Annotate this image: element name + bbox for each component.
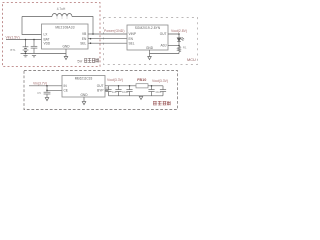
node: CE tap bbox=[46, 90, 48, 92]
svg-text:ME6211C33: ME6211C33 bbox=[75, 77, 93, 81]
ground rail box1 bbox=[21, 53, 67, 55]
junction dots bbox=[25, 33, 180, 91]
chip U1 labels bbox=[44, 25, 87, 48]
chip U2 labels bbox=[129, 26, 167, 50]
svg-text:GND: GND bbox=[146, 46, 154, 50]
module box: 5V boost power module (dashed) bbox=[3, 3, 101, 67]
svg-text:Vin(3.7V): Vin(3.7V) bbox=[33, 81, 47, 85]
svg-text:Vout(3.3V): Vout(3.3V) bbox=[107, 78, 123, 82]
capacitor C1 bbox=[33, 40, 35, 47]
svg-text:10uF: 10uF bbox=[155, 90, 162, 94]
svg-text:VB: VB bbox=[82, 32, 86, 36]
module box: MCU power box (dashed) bbox=[104, 18, 198, 65]
node: C9 rail bbox=[151, 85, 153, 87]
wire: inductor feed top-left bbox=[22, 16, 52, 18]
wire: left vertical to LX pin bbox=[22, 17, 42, 35]
inductor joint specks bbox=[57, 17, 68, 20]
capacitor C8 bbox=[129, 86, 131, 90]
svg-text:GND: GND bbox=[80, 93, 88, 97]
svg-text:BT1: BT1 bbox=[10, 48, 16, 52]
node: C1 tap bbox=[33, 39, 35, 41]
capacitor C5 bbox=[46, 90, 48, 92]
svg-text:VINP: VINP bbox=[129, 32, 136, 36]
svg-text:ADJ: ADJ bbox=[160, 44, 166, 48]
wire: Vin input to BAT pin bbox=[6, 39, 42, 41]
wire: U2 OUT to LED bbox=[168, 34, 179, 38]
svg-text:5V: 5V bbox=[77, 58, 82, 63]
wire: CE tie bbox=[47, 86, 62, 91]
node: EN wire dot bbox=[90, 38, 92, 40]
svg-text:SEL: SEL bbox=[80, 41, 86, 45]
svg-text:CE: CE bbox=[64, 88, 68, 92]
U3 BYP stub bbox=[105, 90, 109, 92]
node: SW/out junction bbox=[92, 33, 94, 35]
capacitor C10 bbox=[162, 86, 164, 90]
resistor R1 bbox=[177, 46, 180, 54]
wire: inductor to SW drop bbox=[72, 17, 93, 35]
svg-text:R1: R1 bbox=[183, 46, 187, 50]
node: C8 rail bbox=[129, 85, 131, 87]
svg-text:1uF: 1uF bbox=[112, 90, 117, 94]
svg-text:SEL: SEL bbox=[129, 41, 135, 45]
ground rail box3 bbox=[109, 95, 164, 97]
svg-text:BYP: BYP bbox=[97, 88, 103, 92]
ground bars under battery bbox=[23, 54, 27, 56]
wire: U1 VB to U2 VINP bbox=[88, 33, 127, 35]
svg-text:C5: C5 bbox=[37, 91, 41, 95]
ferrite bead FB1 bbox=[136, 84, 148, 88]
svg-text:OUT: OUT bbox=[97, 84, 104, 88]
battery BT1 bbox=[25, 40, 27, 47]
node: LED top bbox=[178, 33, 180, 35]
svg-text:OUT: OUT bbox=[160, 32, 167, 36]
svg-text:GND: GND bbox=[62, 45, 70, 49]
U2 GND pin and ground arrow bbox=[149, 50, 151, 57]
U3 GND pin and ground arrow bbox=[83, 97, 85, 102]
capacitor C7 bbox=[118, 86, 120, 90]
chip U3 labels bbox=[64, 77, 104, 98]
capacitor C6 bbox=[108, 86, 110, 90]
node: Vin3.7 tap bbox=[46, 85, 48, 87]
wire: U1 EN to U2 EN bbox=[88, 38, 127, 40]
svg-text:4.7uH: 4.7uH bbox=[57, 7, 66, 11]
ground bars under C1 bbox=[32, 54, 36, 56]
node: battery rail bbox=[25, 53, 27, 55]
svg-text:C6: C6 bbox=[105, 86, 109, 90]
svg-text:Vout(3.3V): Vout(3.3V) bbox=[152, 79, 168, 83]
chip U1 body bbox=[42, 24, 89, 49]
node: C7 rail bbox=[118, 85, 120, 87]
svg-text:VDD: VDD bbox=[44, 41, 51, 45]
svg-text:EN: EN bbox=[129, 37, 134, 41]
wire: Vin 3.7V input bbox=[29, 85, 62, 87]
module box: regulator module (dashed) bbox=[24, 71, 178, 110]
U1 GND pin and ground arrow bbox=[65, 49, 67, 57]
ground arrow under C5 bbox=[45, 98, 49, 101]
svg-text:10uF: 10uF bbox=[122, 90, 129, 94]
LED D1 bbox=[177, 38, 181, 41]
svg-text:Power(GND): Power(GND) bbox=[104, 29, 125, 33]
node: ADJ tap bbox=[178, 45, 180, 47]
output rail left of bead bbox=[105, 85, 136, 87]
svg-text:SGM2019-2.8YN: SGM2019-2.8YN bbox=[135, 26, 161, 30]
svg-text:FB10: FB10 bbox=[137, 78, 146, 82]
svg-text:Vout(2.8V): Vout(2.8V) bbox=[171, 29, 187, 33]
wire: U1 SEL to U2 SEL bbox=[88, 42, 127, 44]
ground rail box2 bbox=[150, 53, 180, 55]
capacitor value labels bbox=[105, 86, 162, 94]
node: battery tap bbox=[25, 39, 27, 41]
capacitor C9 bbox=[151, 86, 153, 90]
output rail right of bead bbox=[148, 85, 163, 87]
module label: regulator module (CJK approximated) bbox=[153, 101, 170, 105]
svg-text:Vin(1.5V): Vin(1.5V) bbox=[6, 35, 20, 39]
svg-text:MCU: MCU bbox=[187, 57, 196, 62]
svg-text:ME2108A33: ME2108A33 bbox=[55, 25, 74, 29]
node: SEL wire dot bbox=[90, 42, 92, 44]
svg-text:EN: EN bbox=[82, 37, 87, 41]
wire: U2 ADJ tap bbox=[168, 45, 179, 47]
module label: 5V power module (CJK approximated) bbox=[77, 58, 98, 63]
ground arrow under rail bbox=[140, 95, 142, 98]
chip U2 body bbox=[127, 25, 168, 50]
inductor L1 bbox=[52, 14, 72, 17]
chip U3 body bbox=[62, 76, 105, 98]
